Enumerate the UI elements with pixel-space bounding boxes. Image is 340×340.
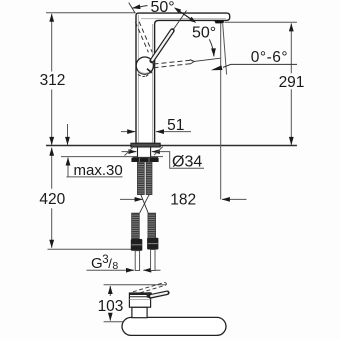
svg-text:Ø34: Ø34 xyxy=(172,154,202,171)
nipple left xyxy=(135,251,139,271)
svg-text:420: 420 xyxy=(39,191,65,208)
lever handle (solid) xyxy=(152,31,173,61)
faucet body outline (L shape) xyxy=(136,13,230,143)
nipple right xyxy=(151,250,155,271)
hose end fitting right xyxy=(147,238,158,250)
escutcheon xyxy=(131,143,160,147)
dimension 103 xyxy=(109,286,111,296)
wire: dashed handle extension above spout xyxy=(129,3,136,14)
svg-text:50°: 50° xyxy=(192,24,216,41)
locknut xyxy=(131,158,158,162)
counter hatch left xyxy=(125,147,134,155)
svg-text:8: 8 xyxy=(112,260,118,272)
dimension 182 xyxy=(120,198,143,200)
dimension G3/8 xyxy=(87,269,135,271)
svg-text:182: 182 xyxy=(170,191,196,208)
svg-text:291: 291 xyxy=(279,74,305,91)
svg-text:0°-6°: 0°-6° xyxy=(251,49,288,66)
lever root inside ball xyxy=(147,69,152,73)
bottom view: dashed raised handle xyxy=(133,282,165,291)
wire: extension line spout outlet to 291 dim xyxy=(225,21,297,23)
shank sides xyxy=(137,147,139,158)
lever direction extension line xyxy=(173,11,187,31)
counter hatch right xyxy=(154,147,163,156)
wire: extension line top-left to 312 dim xyxy=(46,12,136,14)
wire: extension line base bottom (bottom view) xyxy=(104,321,130,323)
threaded stud left xyxy=(137,162,144,195)
dimension 51 xyxy=(121,131,135,133)
dashed handle position right xyxy=(154,60,194,64)
pivot ball xyxy=(136,57,153,74)
wire: counter bottom line left xyxy=(61,156,137,158)
bottom view: spout (stadium) xyxy=(122,317,226,335)
bottom view: lever handle horizontal xyxy=(151,293,168,297)
dashed handle position up xyxy=(135,22,148,52)
svg-text:G: G xyxy=(91,255,103,272)
arc arrowhead upper (points up-left) xyxy=(174,7,181,13)
dimension 420 xyxy=(51,148,53,189)
dimension max.30 xyxy=(67,124,69,145)
hose break cross lines xyxy=(141,195,148,214)
wire: extension line handle tip (bottom view) xyxy=(104,284,167,286)
bottom view: body block xyxy=(129,293,150,307)
washer xyxy=(133,156,159,158)
wire: spout outlet vertical reference xyxy=(220,23,222,199)
bottom view: body neck xyxy=(132,307,147,318)
spout outlet nub xyxy=(214,20,224,23)
angle 50 deg left leader xyxy=(132,6,147,9)
dimension diameter 34 xyxy=(122,151,137,153)
wire: mounting surface line xyxy=(46,145,297,147)
dashed end caps below ball xyxy=(138,74,145,76)
hose end fitting left xyxy=(131,239,143,251)
svg-text:103: 103 xyxy=(98,298,124,315)
dimension 312 xyxy=(51,14,53,72)
arc fragment between arrowheads xyxy=(177,9,194,20)
wire: 6 degree tilted stream line xyxy=(223,24,227,75)
threaded stud right xyxy=(146,162,152,195)
svg-text:51: 51 xyxy=(167,117,184,134)
wire: dashed handle right extension xyxy=(194,58,220,61)
wire: counter bottom line right stub xyxy=(151,156,163,158)
wire: hose end reference line xyxy=(48,248,132,250)
braided hose left xyxy=(132,213,140,239)
svg-text:312: 312 xyxy=(40,72,66,89)
svg-text:max.30: max.30 xyxy=(74,162,123,179)
arc arrowhead lower (points down-right) xyxy=(189,17,196,23)
body inner shade lines xyxy=(137,15,139,143)
braided hose right xyxy=(148,213,156,239)
dimension 291 xyxy=(290,23,292,73)
